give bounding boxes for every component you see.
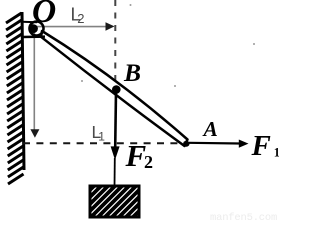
svg-text:O: O	[32, 0, 56, 30]
label L2	[71, 4, 85, 26]
label F1	[251, 130, 281, 162]
svg-text:B: B	[123, 58, 141, 87]
vertical dimension arrow from O	[30, 30, 39, 138]
svg-text:manfen5.com: manfen5.com	[210, 212, 277, 222]
label L1	[92, 122, 106, 143]
string to weight	[114, 158, 116, 187]
vertical dashed line through B	[114, 0, 116, 81]
pivot pin dot O	[29, 24, 38, 33]
svg-text:A: A	[202, 117, 218, 141]
svg-text:1: 1	[274, 146, 279, 160]
svg-text:1: 1	[98, 129, 105, 143]
svg-text:F: F	[251, 130, 271, 162]
svg-text:2: 2	[77, 11, 84, 26]
rod end blob at A	[183, 141, 189, 147]
force arrow F2	[111, 91, 120, 160]
dimension arrow L2	[36, 22, 115, 31]
dashed line L1	[23, 142, 189, 144]
rod OA	[41, 31, 188, 146]
node B dot	[112, 85, 121, 94]
svg-text:2: 2	[144, 152, 153, 172]
pivot bracket at O	[22, 22, 45, 38]
wall	[6, 12, 24, 184]
weight block	[58, 182, 175, 222]
ink specks	[81, 4, 255, 87]
label F2	[125, 138, 154, 173]
force arrow F1	[189, 140, 249, 148]
